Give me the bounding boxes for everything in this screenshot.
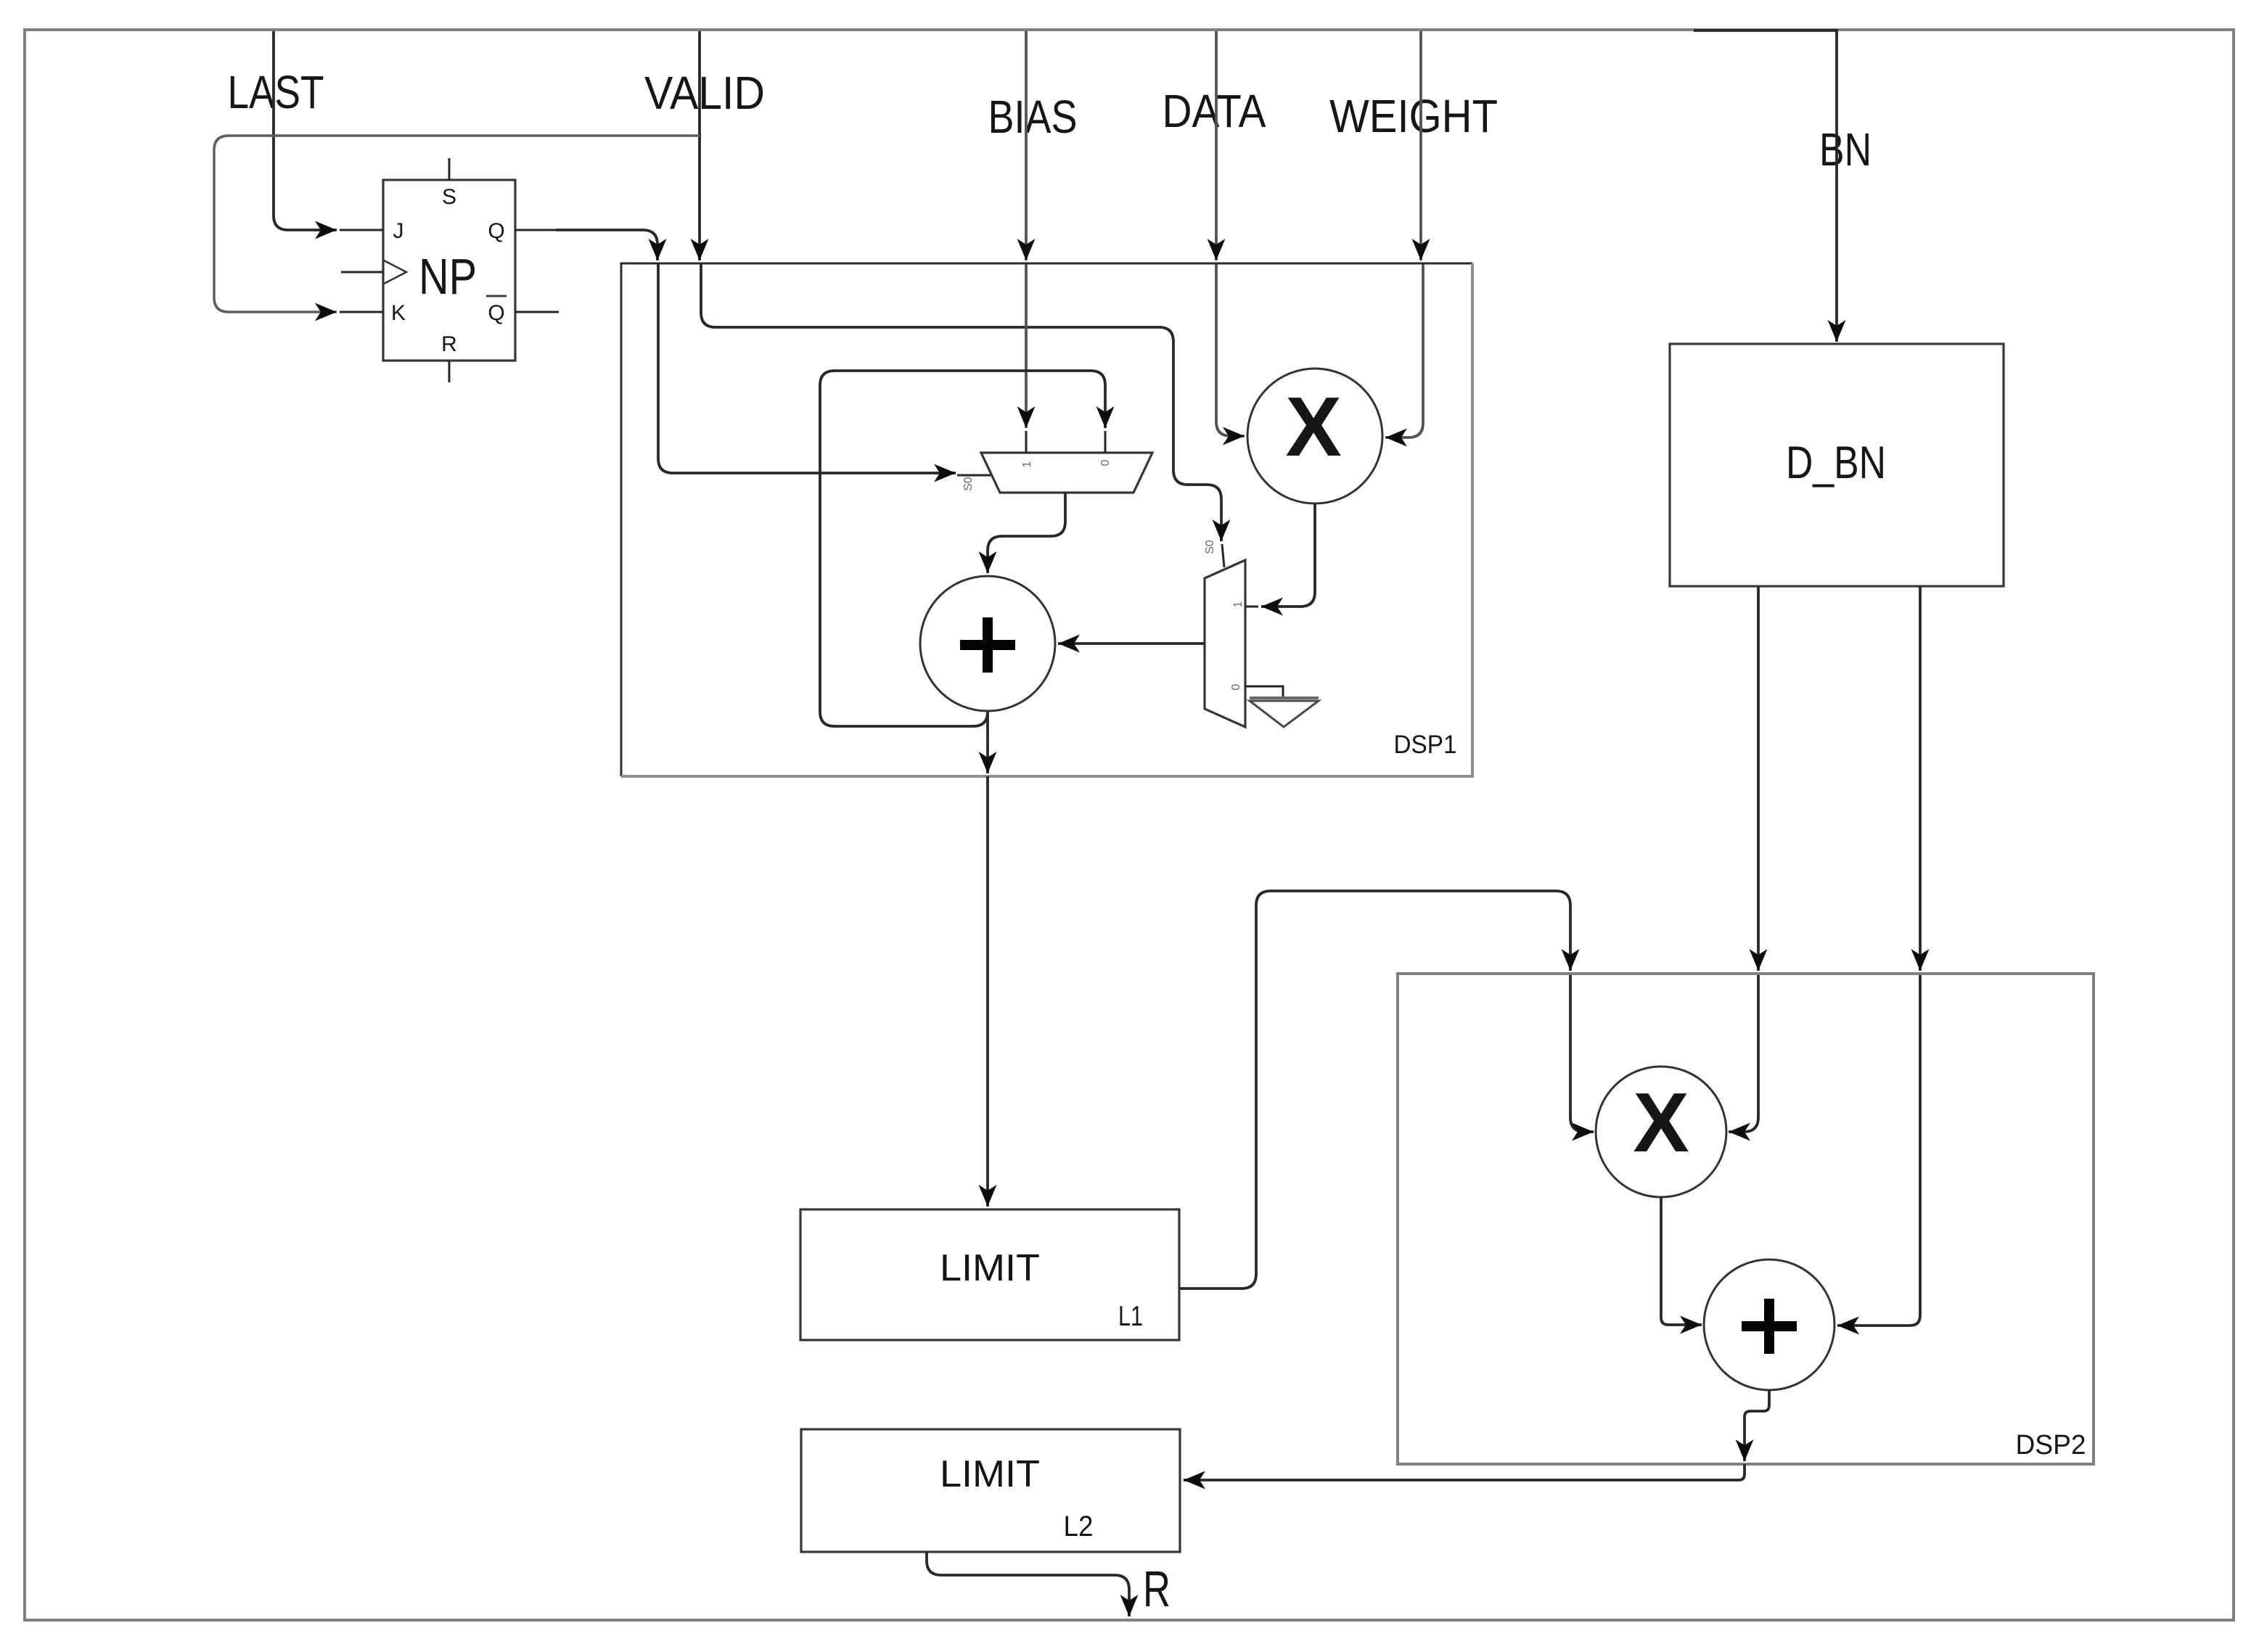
net LAST label: [228, 66, 324, 118]
ground symbol: [1250, 698, 1319, 727]
svg-text:DATA: DATA: [1163, 85, 1266, 137]
NP pin S stub: [442, 158, 456, 209]
DSP2 label: [2016, 1430, 2086, 1460]
svg-text:0: 0: [1099, 459, 1112, 466]
wire VALID from top border down to DSP1: [698, 31, 701, 260]
multiplier X2 circle: [1596, 1067, 1726, 1197]
adder A2 circle: [1704, 1259, 1834, 1390]
wire VALID inside DSP1 to mux M2 select: [701, 263, 1224, 567]
net DATA label: [1163, 85, 1266, 137]
wire adder A1 output to DSP1 edge: [986, 712, 989, 773]
svg-text:J: J: [393, 219, 404, 243]
NP label: [419, 248, 477, 305]
svg-text:WEIGHT: WEIGHT: [1329, 90, 1498, 142]
LIMIT L2 box: [801, 1429, 1180, 1552]
svg-text:0: 0: [1230, 683, 1242, 690]
wire D_BN right output inside DSP2 to adder A2: [1837, 974, 1920, 1326]
wire WEIGHT from top border to DSP1: [1419, 31, 1422, 260]
NP pin R stub: [441, 332, 457, 382]
svg-text:Q: Q: [488, 301, 504, 325]
wire NP Q output to DSP1: [556, 230, 657, 260]
wire VALID branch to NP pin K: [214, 136, 700, 312]
mux M2 select label S0: [1204, 540, 1216, 554]
svg-text:K: K: [391, 301, 406, 325]
svg-text:LAST: LAST: [228, 66, 324, 118]
svg-text:L1: L1: [1118, 1301, 1143, 1332]
mux M2 trapezoid: [1205, 560, 1245, 727]
svg-text:D_BN: D_BN: [1786, 437, 1886, 488]
NP pin Q stub: [488, 219, 556, 243]
wire DSP2 output to LIMIT L2: [1184, 1464, 1745, 1480]
adder A1 circle: [920, 576, 1055, 711]
wire Q inside DSP1 to mux M1 select: [658, 263, 992, 475]
L2 sublabel: [1064, 1511, 1094, 1542]
D_BN label: [1786, 437, 1886, 488]
svg-text:VALID: VALID: [644, 67, 765, 119]
NP pin Qbar stub: [486, 296, 559, 325]
DSP1 label: [1394, 731, 1457, 759]
net VALID label: [644, 67, 765, 119]
svg-text:X: X: [1633, 1075, 1689, 1170]
flip-flop NP box: [383, 180, 515, 361]
NP pin J stub: [340, 219, 404, 243]
mux M1 input stubs: [1026, 431, 1105, 453]
svg-text:1: 1: [1232, 601, 1245, 607]
DSP2 container box: [1398, 974, 2094, 1464]
net WEIGHT label: [1329, 90, 1498, 142]
wire DATA inside DSP1 to multiplier X1: [1216, 263, 1245, 436]
wire accumulator feedback loop A1 to mux M1 input 0: [820, 371, 1105, 726]
svg-text:NP: NP: [419, 248, 477, 305]
DSP1 container box: [621, 263, 1472, 776]
wire X1 output to mux M2 input 1: [1261, 504, 1315, 607]
mux M2 pin label 0: [1230, 683, 1242, 690]
wire adder A2 output to DSP2 edge: [1745, 1390, 1769, 1461]
wire mux M2 output to adder A1: [1058, 642, 1205, 645]
mux M1 trapezoid: [981, 453, 1152, 493]
wire D_BN left output inside DSP2 to multiplier X2: [1729, 974, 1758, 1132]
svg-text:DSP2: DSP2: [2016, 1430, 2086, 1460]
mux M2 input 0 stub to ground: [1245, 686, 1283, 696]
L1 sublabel: [1118, 1301, 1143, 1332]
svg-text:BN: BN: [1819, 123, 1872, 176]
svg-text:X: X: [1285, 379, 1341, 474]
svg-text:DSP1: DSP1: [1394, 731, 1457, 759]
wire LIMIT L2 output to R: [927, 1552, 1129, 1616]
mux M2 input 1 stub: [1245, 606, 1258, 608]
mux M1 output stub: [1065, 493, 1067, 521]
NP clock pin and chevron: [341, 260, 406, 284]
LIMIT L1 label: [940, 1247, 1040, 1289]
wire L1 inside DSP2 to multiplier X2: [1570, 974, 1594, 1132]
LIMIT L1 box: [800, 1209, 1179, 1340]
wire BIAS from top border to DSP1: [1025, 31, 1028, 260]
svg-text:BIAS: BIAS: [988, 91, 1078, 143]
wire D_BN left output down to DSP2: [1757, 586, 1760, 971]
wire D_BN right output down to DSP2: [1919, 586, 1922, 971]
wire BIAS inside DSP1 to mux M1 input 1: [1025, 263, 1028, 428]
D_BN box: [1670, 344, 2004, 586]
mux M1 pin label 1: [1021, 461, 1033, 467]
wire DSP1 output down to LIMIT L1: [986, 776, 989, 1207]
NP pin K stub: [340, 301, 406, 325]
svg-text:R: R: [441, 332, 457, 356]
wire WEIGHT inside DSP1 to multiplier X1: [1385, 263, 1423, 437]
svg-text:S0: S0: [1204, 540, 1216, 554]
mux M1 pin label 0: [1099, 459, 1112, 466]
svg-text:1: 1: [1021, 461, 1033, 467]
svg-text:LIMIT: LIMIT: [940, 1247, 1040, 1289]
wire LAST from top border to NP pin J: [274, 31, 337, 230]
wire mux M1 output to adder A1: [988, 493, 1065, 573]
svg-text:L2: L2: [1064, 1511, 1094, 1542]
mux M1 select label S0: [962, 477, 975, 491]
net R label: [1143, 1561, 1171, 1617]
wire X2 output to adder A2: [1661, 1197, 1702, 1325]
svg-text:R: R: [1143, 1561, 1171, 1617]
wire LIMIT L1 output up and into DSP2: [1179, 891, 1570, 1289]
mux M2 pin label 1: [1232, 601, 1245, 607]
net BN label: [1819, 123, 1872, 176]
LIMIT L2 label: [940, 1453, 1040, 1495]
wire DATA from top border to DSP1: [1215, 31, 1218, 260]
svg-text:Q: Q: [488, 219, 504, 243]
svg-text:S0: S0: [962, 477, 975, 491]
svg-text:LIMIT: LIMIT: [940, 1453, 1040, 1495]
multiplier X1 circle: [1247, 369, 1382, 504]
net BIAS label: [988, 91, 1078, 143]
svg-text:S: S: [442, 185, 456, 209]
wire BN along top border down to D_BN: [1694, 30, 1837, 342]
